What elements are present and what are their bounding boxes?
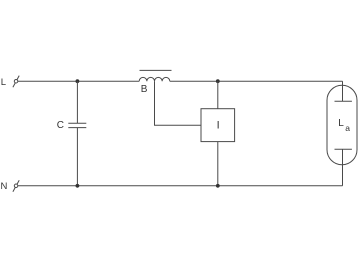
inductor B (ballast choke with core bar) [139,70,171,81]
capacitor C [68,123,86,127]
wire inductor tap to ignitor [155,81,202,125]
wire bottom (N terminal to lamp) [18,185,343,187]
wire top node to ignitor [217,81,219,109]
terminal N (mains connection symbol) [13,180,19,192]
svg-text:N: N [1,181,8,192]
lamp La (discharge lamp envelope) [327,85,357,165]
node top-middle junction [216,79,220,83]
wire lamp top lead [342,81,344,101]
ignitor I (box) [201,109,235,142]
svg-text:C: C [57,120,64,131]
lamp bottom electrode [335,148,352,150]
node bottom-left junction [76,184,80,188]
terminal L (mains connection symbol) [13,76,19,88]
node top-left junction [76,79,80,83]
svg-text:L: L [1,77,6,88]
wire capacitor upper lead [76,81,78,123]
node bottom-middle junction [216,184,220,188]
svg-text:a: a [345,123,350,133]
wire top (L terminal to inductor) [18,80,139,82]
lamp top electrode [335,100,352,102]
svg-text:I: I [217,120,220,132]
wire ignitor to bottom node [217,142,219,186]
svg-text:B: B [141,84,148,95]
wire lamp bottom lead [342,149,344,186]
wire capacitor lower lead [76,128,78,186]
wire top (inductor to lamp) [170,80,343,82]
svg-text:L: L [338,118,344,129]
